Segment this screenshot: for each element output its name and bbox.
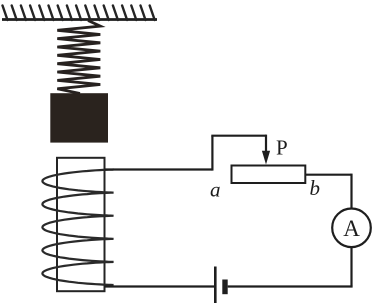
wire ammeter to bottom [350, 247, 352, 286]
mass block [50, 93, 108, 142]
wire down to ammeter [350, 174, 352, 209]
svg-text:P: P [276, 136, 288, 160]
battery short plate [222, 280, 227, 295]
wire coil top to riser [105, 168, 213, 170]
slider arrow head [262, 151, 270, 165]
coil core rectangle [57, 158, 105, 291]
ceiling hatching [3, 6, 155, 21]
ceiling support line [2, 18, 157, 21]
coil L1 winding [42, 170, 113, 286]
rheostat box [232, 166, 306, 184]
slider arrow stem [265, 135, 267, 153]
wire bottom right segment [228, 285, 353, 287]
spring [57, 21, 100, 94]
wire bottom left segment [105, 285, 215, 287]
wire top horizontal [211, 135, 266, 137]
svg-text:b: b [310, 176, 321, 200]
wire box right to corner [305, 174, 351, 176]
wire riser up [211, 136, 213, 171]
battery long plate [214, 267, 217, 304]
ammeter A1 circle [332, 209, 371, 248]
svg-text:A: A [343, 216, 360, 241]
svg-text:a: a [210, 178, 221, 202]
